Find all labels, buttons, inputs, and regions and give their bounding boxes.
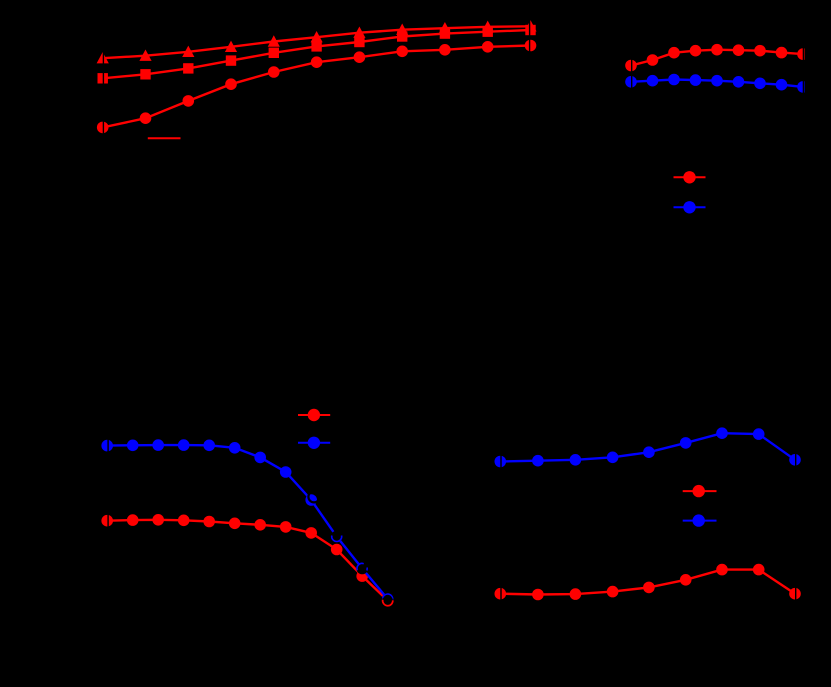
- top-left plot: square series line: [103, 30, 531, 78]
- bottom-left legend: blue entry (line + circle marker): [298, 437, 330, 449]
- bottom-right plot: black error bars on first and last points: [501, 453, 796, 601]
- bottom-right plot: blue series line: [500, 433, 795, 461]
- bottom-right plot: red series line: [500, 570, 795, 595]
- top-left plot: circle series line: [103, 46, 531, 128]
- top-right plot: blue series markers: [625, 74, 809, 93]
- top-left plot: square series markers: [98, 25, 536, 84]
- bottom-left plot: red series line: [107, 520, 388, 601]
- top-right plot: black error bars on first and last points: [632, 48, 804, 94]
- top-right plot: red series markers: [625, 44, 809, 71]
- top-left plot: legend red line sample: [148, 137, 181, 139]
- bottom-left plot: black notch ring over blue point 8: [308, 491, 319, 502]
- bottom-left plot: red series filled markers (points 0-10): [101, 514, 368, 582]
- top-left plot: circle series markers: [97, 40, 536, 134]
- top-left plot: triangle series line: [103, 26, 531, 58]
- bottom-right legend: blue entry (line + circle marker): [683, 514, 717, 526]
- bottom-left plot: blue series line: [107, 445, 388, 599]
- top-right plot: red series line: [631, 50, 803, 66]
- top-right plot: blue series line: [631, 80, 803, 87]
- bottom-left plot: final overlapped open markers point 11 (blue arc top, red rim bottom): [382, 593, 394, 606]
- top-left plot: triangle series markers: [97, 20, 537, 63]
- bottom-right plot: blue series markers: [495, 427, 801, 467]
- top-left plot: black error bars on last points: [529, 19, 531, 52]
- bottom-right legend: red entry (line + circle marker): [683, 485, 717, 497]
- bottom-left plot: blue series filled markers (points 0-8): [101, 439, 317, 506]
- top-right legend: red entry (line + circle marker): [674, 171, 706, 183]
- bottom-left plot: blue open marker point 10 (black face, blue arc top-left): [356, 563, 368, 575]
- top-right legend: blue entry (line + circle marker): [674, 201, 706, 213]
- top-left plot: black error bars on first points: [102, 51, 104, 134]
- bottom-left legend: red entry (line + circle marker): [298, 409, 330, 421]
- bottom-left plot: blue open marker point 9 (black face, blue rim): [331, 531, 343, 543]
- top-right plot: clip of last markers at axes edge: [805, 40, 817, 100]
- bottom-left plot: black error bars on first points: [107, 439, 109, 528]
- bottom-right plot: red series markers: [495, 564, 801, 601]
